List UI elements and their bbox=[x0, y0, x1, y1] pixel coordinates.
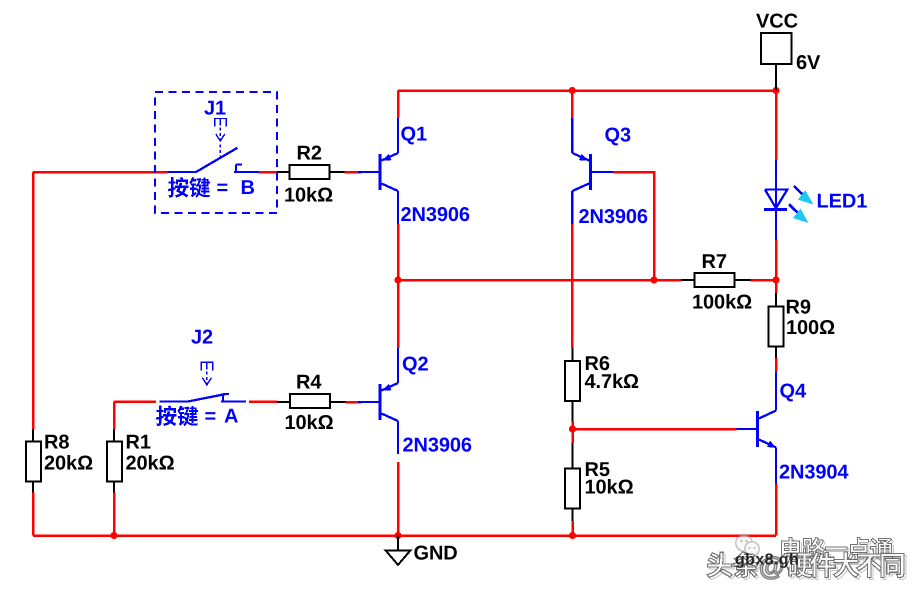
svg-text:2N3904: 2N3904 bbox=[779, 461, 849, 483]
svg-text:4.7kΩ: 4.7kΩ bbox=[585, 371, 640, 393]
svg-text:R8: R8 bbox=[44, 432, 69, 454]
wire bbox=[345, 171, 362, 174]
wire bbox=[573, 428, 737, 431]
wire bbox=[397, 280, 400, 348]
svg-text:R2: R2 bbox=[297, 143, 322, 165]
svg-text:=: = bbox=[217, 177, 229, 199]
svg-text:R7: R7 bbox=[702, 251, 727, 273]
wire bbox=[571, 224, 574, 348]
LED LED1 bbox=[775, 160, 777, 240]
svg-text:J2: J2 bbox=[191, 327, 213, 349]
svg-text:10kΩ: 10kΩ bbox=[285, 412, 334, 434]
wire bbox=[571, 521, 574, 536]
svg-text:Q3: Q3 bbox=[605, 125, 631, 147]
LED light arrow 1 bbox=[794, 186, 813, 205]
wire bbox=[32, 493, 35, 536]
resistor R9 bbox=[775, 293, 777, 306]
node top-rail/Q3 bbox=[569, 87, 576, 94]
node Q3-base/R7 bbox=[650, 276, 657, 283]
wire bbox=[114, 400, 156, 403]
wire bbox=[775, 484, 778, 536]
wire bbox=[775, 240, 778, 293]
svg-text:R4: R4 bbox=[296, 372, 322, 394]
svg-text:6V: 6V bbox=[796, 52, 821, 74]
svg-text:20kΩ: 20kΩ bbox=[44, 453, 93, 475]
svg-text:Q4: Q4 bbox=[780, 380, 807, 402]
wire bbox=[33, 171, 168, 174]
resistor R4 bbox=[277, 401, 290, 403]
wire bbox=[259, 171, 277, 174]
wire bbox=[397, 462, 400, 536]
svg-text:2N3906: 2N3906 bbox=[403, 435, 472, 457]
wire bbox=[614, 172, 655, 280]
svg-text:R1: R1 bbox=[126, 432, 151, 454]
transistor Q2 bbox=[379, 384, 382, 420]
svg-text:VCC: VCC bbox=[756, 11, 798, 33]
svg-text:20kΩ: 20kΩ bbox=[126, 453, 175, 475]
wire bbox=[397, 91, 400, 119]
resistor R5 bbox=[572, 443, 574, 469]
svg-text:100Ω: 100Ω bbox=[786, 317, 835, 339]
node R6/R5/Q4-base bbox=[569, 425, 576, 432]
watermark badge circle bbox=[736, 535, 759, 556]
svg-text:10kΩ: 10kΩ bbox=[585, 477, 634, 499]
node R5 bottom bbox=[569, 532, 576, 539]
svg-text:gbx8.gh: gbx8.gh bbox=[735, 552, 799, 569]
transistor Q4 bbox=[756, 411, 759, 447]
wire bbox=[654, 279, 682, 282]
wire bbox=[571, 422, 574, 444]
switch J1 label bbox=[168, 177, 188, 197]
transistor Q1 bbox=[379, 154, 382, 190]
svg-text:2N3906: 2N3906 bbox=[401, 204, 470, 226]
ground bbox=[397, 536, 399, 551]
switch J1 enclosure (dashed box) bbox=[155, 92, 277, 213]
node GND bbox=[394, 532, 401, 539]
wire bbox=[249, 400, 277, 403]
wire bbox=[345, 401, 361, 404]
wire bbox=[397, 224, 400, 280]
wire bbox=[32, 172, 35, 430]
node R7/R9/LED bbox=[772, 276, 779, 283]
node R1 bottom bbox=[110, 532, 117, 539]
svg-text:LED1: LED1 bbox=[817, 191, 868, 213]
wire bbox=[571, 91, 574, 119]
svg-text:2N3906: 2N3906 bbox=[579, 206, 648, 228]
svg-text:=: = bbox=[205, 406, 217, 428]
node VCC bbox=[772, 87, 779, 94]
switch J2 label bbox=[156, 406, 176, 426]
svg-text:10kΩ: 10kΩ bbox=[284, 185, 333, 207]
resistor R7 bbox=[682, 279, 695, 281]
resistor R1 bbox=[113, 430, 115, 442]
svg-text:A: A bbox=[224, 406, 238, 428]
svg-text:B: B bbox=[241, 177, 255, 199]
svg-text:GND: GND bbox=[414, 543, 458, 565]
resistor R8 bbox=[32, 430, 34, 442]
node Q1-collector bbox=[394, 276, 401, 283]
svg-text:J1: J1 bbox=[204, 98, 226, 120]
svg-text:Q1: Q1 bbox=[401, 124, 427, 146]
svg-text:100kΩ: 100kΩ bbox=[692, 291, 752, 313]
power VCC bbox=[761, 33, 792, 64]
wire bbox=[33, 534, 776, 537]
resistor R6 bbox=[572, 348, 574, 362]
watermark text line1 电路一点通 bbox=[783, 539, 803, 561]
svg-text:Q2: Q2 bbox=[402, 354, 428, 376]
LED light arrow 2 bbox=[789, 204, 808, 223]
wire bbox=[775, 358, 778, 372]
resistor R2 bbox=[277, 171, 290, 173]
wire bbox=[775, 91, 778, 161]
watermark text line2 头条@硬件大不同 bbox=[709, 554, 734, 579]
wire bbox=[398, 279, 654, 282]
wire bbox=[113, 402, 116, 430]
wire bbox=[398, 89, 776, 92]
svg-text:R9: R9 bbox=[786, 297, 811, 319]
wire bbox=[113, 493, 116, 536]
transistor Q3 bbox=[589, 154, 592, 190]
wire bbox=[751, 279, 777, 282]
